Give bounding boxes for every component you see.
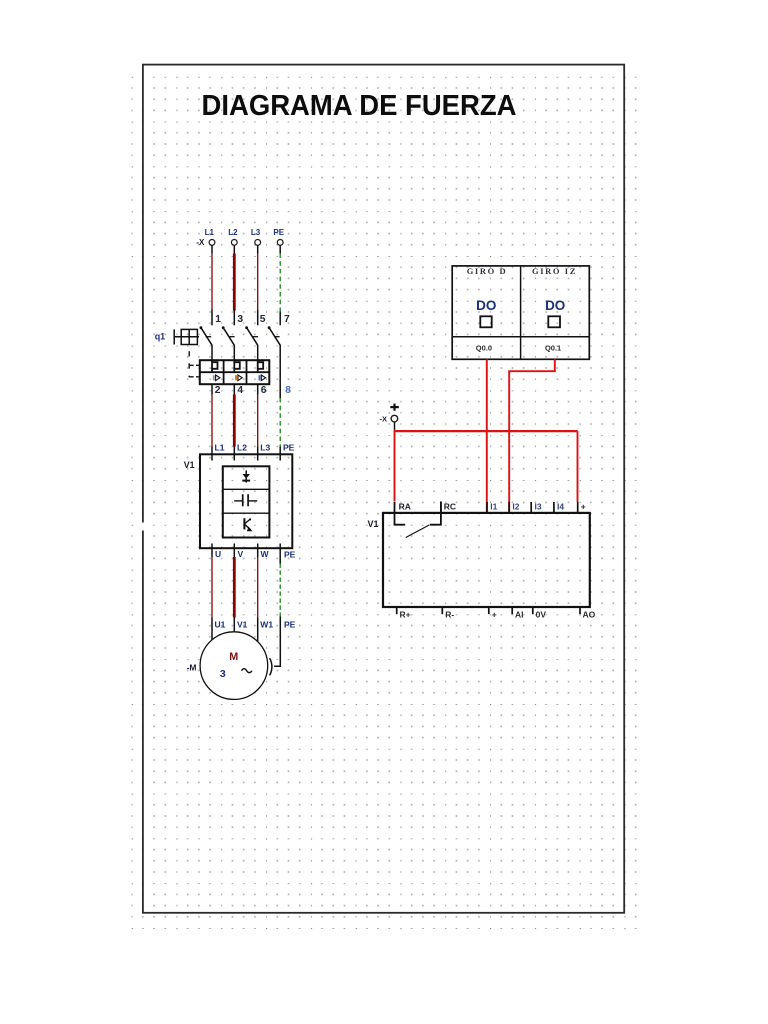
svg-text:RA: RA bbox=[399, 502, 411, 512]
svg-text:L3: L3 bbox=[251, 228, 261, 237]
svg-text:I1: I1 bbox=[490, 502, 497, 512]
svg-text:GIRO D: GIRO D bbox=[467, 266, 508, 276]
svg-text:U: U bbox=[215, 549, 221, 559]
svg-text:PE: PE bbox=[284, 619, 296, 629]
svg-text:I4: I4 bbox=[557, 502, 564, 512]
svg-text:8: 8 bbox=[285, 385, 291, 396]
svg-text:V1: V1 bbox=[184, 460, 195, 470]
svg-text:-X: -X bbox=[196, 238, 205, 247]
svg-text:q1: q1 bbox=[155, 332, 166, 342]
svg-text:-X: -X bbox=[380, 414, 388, 423]
svg-text:6: 6 bbox=[261, 385, 267, 396]
svg-text:7: 7 bbox=[284, 314, 290, 325]
svg-text:I2: I2 bbox=[512, 502, 519, 512]
svg-text:L2: L2 bbox=[228, 228, 238, 237]
svg-text:AI: AI bbox=[515, 609, 524, 619]
svg-text:5: 5 bbox=[260, 314, 266, 325]
svg-text:PE: PE bbox=[273, 228, 284, 237]
svg-text:4: 4 bbox=[237, 385, 243, 396]
svg-text:RC: RC bbox=[444, 502, 456, 512]
svg-text:R+: R+ bbox=[400, 609, 411, 619]
svg-text:U1: U1 bbox=[215, 620, 226, 630]
svg-text:PE: PE bbox=[284, 549, 296, 559]
svg-text:V1: V1 bbox=[367, 519, 378, 529]
svg-text:L1: L1 bbox=[215, 442, 225, 452]
svg-text:AO: AO bbox=[583, 609, 596, 619]
svg-text:PE: PE bbox=[283, 442, 295, 452]
svg-text:2: 2 bbox=[215, 385, 221, 396]
svg-text:V: V bbox=[238, 549, 244, 559]
svg-text:1: 1 bbox=[215, 314, 221, 325]
svg-text:M: M bbox=[229, 651, 238, 663]
svg-text:0V: 0V bbox=[536, 609, 547, 619]
svg-text:DO: DO bbox=[476, 298, 496, 313]
svg-text:3: 3 bbox=[220, 668, 226, 680]
svg-text:3: 3 bbox=[237, 314, 243, 325]
svg-text:DO: DO bbox=[545, 298, 565, 313]
svg-text:V1: V1 bbox=[237, 620, 248, 630]
svg-text:W1: W1 bbox=[260, 620, 273, 630]
svg-text:R-: R- bbox=[445, 609, 454, 619]
svg-text:Q0.0: Q0.0 bbox=[476, 344, 492, 353]
svg-text:GIRO IZ: GIRO IZ bbox=[532, 266, 577, 276]
svg-text:L1: L1 bbox=[205, 228, 215, 237]
svg-text:L3: L3 bbox=[260, 442, 270, 452]
svg-text:W: W bbox=[261, 549, 270, 559]
svg-text:L2: L2 bbox=[237, 442, 247, 452]
svg-text:DIAGRAMA DE FUERZA: DIAGRAMA DE FUERZA bbox=[202, 90, 517, 122]
svg-text:I3: I3 bbox=[535, 502, 542, 512]
svg-text:-M: -M bbox=[187, 663, 197, 673]
svg-text:Q0.1: Q0.1 bbox=[545, 344, 561, 353]
svg-text:+: + bbox=[492, 609, 497, 619]
svg-text:+: + bbox=[581, 502, 586, 512]
